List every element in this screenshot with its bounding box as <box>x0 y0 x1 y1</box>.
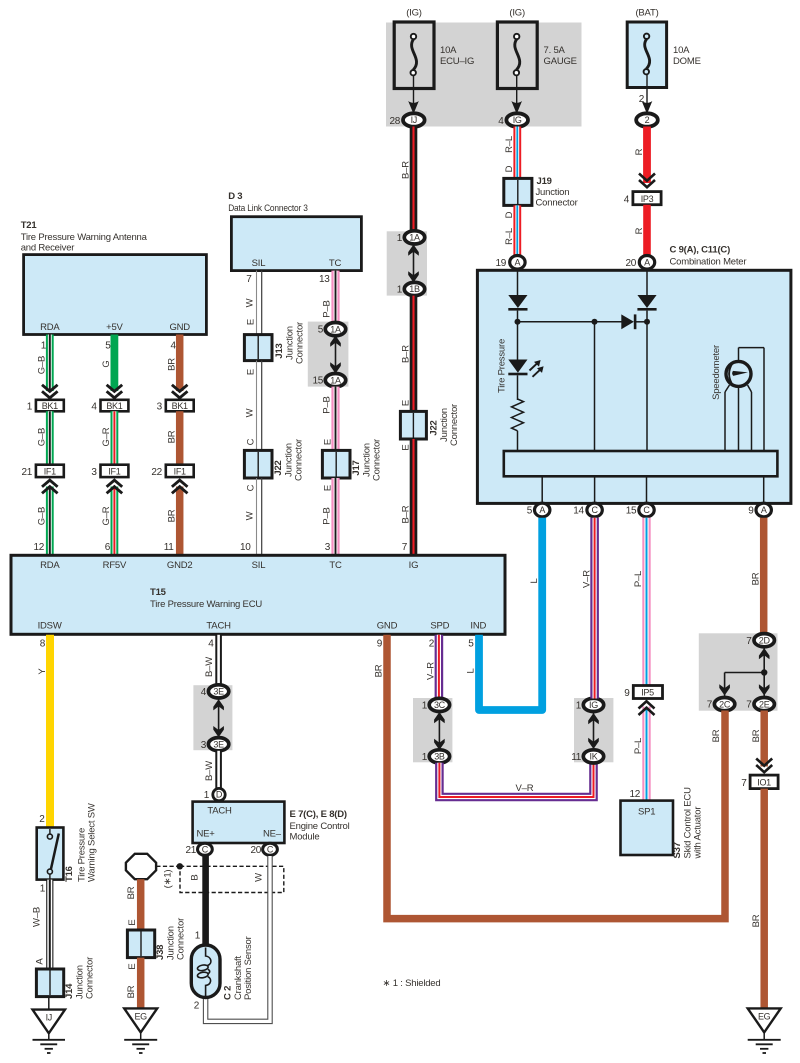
svg-text:7: 7 <box>707 700 713 711</box>
svg-text:Y: Y <box>37 668 48 675</box>
svg-text:B: B <box>190 874 201 880</box>
svg-text:3E: 3E <box>213 687 224 697</box>
svg-text:W: W <box>245 298 256 307</box>
svg-text:IP3: IP3 <box>641 194 654 204</box>
svg-text:IJ: IJ <box>411 115 417 125</box>
svg-text:R–L: R–L <box>504 136 515 153</box>
svg-text:IK: IK <box>590 752 598 762</box>
svg-text:C: C <box>202 845 209 855</box>
connector box BK1 pin 3 <box>157 400 194 413</box>
connector box BK1 pin 4 <box>91 400 128 413</box>
svg-text:IJ: IJ <box>46 1013 52 1023</box>
svg-text:with Actuator: with Actuator <box>693 807 704 860</box>
svg-text:Connector: Connector <box>294 439 305 481</box>
svg-text:21: 21 <box>21 467 32 478</box>
junction connector J14 <box>36 957 95 999</box>
junction connector J13 <box>244 322 305 364</box>
svg-text:7: 7 <box>741 778 747 789</box>
svg-text:J22: J22 <box>273 460 284 475</box>
svg-text:BK1: BK1 <box>42 401 58 411</box>
ground IJ <box>33 997 66 1053</box>
svg-text:C: C <box>246 438 257 445</box>
svg-text:B–R: B–R <box>400 505 411 523</box>
svg-text:Junction: Junction <box>536 187 570 198</box>
connector box IP3 pin 4 <box>624 192 661 206</box>
junction connector J17 <box>322 439 382 481</box>
svg-text:1: 1 <box>204 790 210 801</box>
T21 Tire Pressure Warning Antenna and Receiver box <box>24 255 207 335</box>
connector circle A pin 19 <box>495 255 525 269</box>
junction connector J22 (IG wire) <box>400 404 460 446</box>
svg-text:5: 5 <box>105 341 111 352</box>
wire G-B T21 RDA to BK1 <box>36 335 57 398</box>
svg-text:Connector: Connector <box>85 957 96 999</box>
svg-text:1: 1 <box>40 884 46 895</box>
connector box IF1 pin 3 <box>91 465 128 478</box>
svg-text:V–R: V–R <box>516 783 534 794</box>
svg-text:E: E <box>127 919 138 925</box>
svg-text:EG: EG <box>134 1011 147 1021</box>
wire W J22 to T15 pin 10 <box>240 478 262 555</box>
svg-text:V–R: V–R <box>582 570 593 588</box>
connector pair IG / IK <box>571 698 613 763</box>
svg-text:V–R: V–R <box>426 662 437 680</box>
svg-text:E 7(C), E 8(D): E 7(C), E 8(D) <box>290 809 347 820</box>
svg-text:BR: BR <box>126 985 137 998</box>
svg-text:∗ 1 : Shielded: ∗ 1 : Shielded <box>383 978 441 989</box>
svg-text:E: E <box>401 400 412 406</box>
svg-text:5: 5 <box>468 639 474 650</box>
junction connector J38 <box>127 918 186 960</box>
connector oval IJ pin 28 <box>389 113 424 127</box>
svg-text:E: E <box>401 444 412 450</box>
svg-text:IDSW: IDSW <box>38 621 62 632</box>
wire fuse1 to IJ oval <box>408 75 419 111</box>
wire BR CM pin 9 to 2D <box>750 518 763 636</box>
svg-text:G–B: G–B <box>36 356 47 374</box>
wire BR IO1 to EG ground <box>751 789 764 1009</box>
svg-text:12: 12 <box>33 542 44 553</box>
C2 Crankshaft Position Sensor <box>191 936 254 1011</box>
wire V-R T15 SPD to connector 3C <box>426 635 439 700</box>
wire BR BK1 to IF1 <box>166 411 179 465</box>
CM internal wire from pin 20 <box>646 271 648 296</box>
svg-text:5: 5 <box>527 506 533 517</box>
wire fuse2 to IG oval <box>511 75 522 111</box>
svg-text:2: 2 <box>39 814 45 825</box>
svg-text:BK1: BK1 <box>172 401 188 411</box>
svg-text:B–R: B–R <box>400 161 411 179</box>
T15 Tire Pressure Warning ECU box <box>11 555 505 634</box>
svg-text:19: 19 <box>495 258 506 269</box>
svg-text:RDA: RDA <box>40 322 60 333</box>
svg-text:IF1: IF1 <box>44 466 56 476</box>
connector group 2D / 2C / 2E <box>699 633 778 710</box>
connector circle C pin 20 <box>250 843 277 856</box>
svg-text:9: 9 <box>624 688 630 699</box>
svg-text:7: 7 <box>246 274 252 285</box>
CM bottom pin 9 A <box>748 503 771 517</box>
svg-text:SP1: SP1 <box>638 807 655 818</box>
T16 Tire Pressure Warning Select SW <box>37 803 98 882</box>
svg-text:3: 3 <box>325 542 331 553</box>
svg-text:DOME: DOME <box>673 56 701 67</box>
connector box BK1 pin 1 <box>27 400 64 413</box>
svg-text:10A: 10A <box>673 45 690 56</box>
CM bottom pin 14 C <box>573 503 602 517</box>
svg-text:R: R <box>634 227 645 234</box>
junction connector J19 <box>504 176 578 209</box>
connector oval IG pin 4 <box>498 113 528 127</box>
svg-text:NE+: NE+ <box>197 829 216 840</box>
svg-text:C 2: C 2 <box>223 986 234 1000</box>
svg-text:Connector: Connector <box>536 198 578 209</box>
svg-text:BK1: BK1 <box>106 401 122 411</box>
svg-text:BR: BR <box>711 729 722 742</box>
wire L CM pin5 to T15 IND <box>466 518 543 710</box>
svg-text:P–B: P–B <box>322 300 333 317</box>
svg-text:RF5V: RF5V <box>103 560 127 571</box>
connector pair 3E / 3E <box>193 685 232 751</box>
svg-text:G–R: G–R <box>101 506 112 525</box>
wire B-R J22 to T15 pin 7 <box>400 439 413 555</box>
svg-text:9: 9 <box>377 639 383 650</box>
svg-text:TACH: TACH <box>206 621 231 632</box>
wire G-R BK1 to IF1 <box>101 411 114 465</box>
svg-text:28: 28 <box>389 116 400 127</box>
svg-text:Position Sensor: Position Sensor <box>243 936 254 1000</box>
wire R fuse3 to IP3 <box>634 127 655 188</box>
svg-text:1: 1 <box>41 341 47 352</box>
ground EG (right) <box>748 1008 781 1053</box>
junction connector J22 (SIL wire) <box>244 439 304 481</box>
svg-text:G–B: G–B <box>36 507 47 525</box>
svg-text:4: 4 <box>624 194 630 205</box>
svg-text:5: 5 <box>318 325 324 336</box>
svg-text:P–L: P–L <box>633 571 644 587</box>
wire W pin20 to C2 (loop) <box>206 856 270 1021</box>
svg-text:BR: BR <box>374 664 385 677</box>
svg-text:2: 2 <box>194 1001 200 1012</box>
svg-text:4: 4 <box>208 639 214 650</box>
svg-text:GND: GND <box>169 322 190 333</box>
svg-text:7: 7 <box>746 636 752 647</box>
fuse 10A DOME <box>627 8 701 88</box>
svg-text:P–B: P–B <box>322 507 333 524</box>
svg-text:C: C <box>591 505 598 515</box>
svg-text:2C: 2C <box>719 699 731 709</box>
svg-text:W: W <box>254 873 265 882</box>
svg-text:NE–: NE– <box>263 829 282 840</box>
svg-text:J17: J17 <box>351 460 362 475</box>
T21 title <box>21 220 148 254</box>
svg-text:Tire Pressure Warning Antenna: Tire Pressure Warning Antenna <box>21 232 148 243</box>
CM bottom pin 5 A <box>527 503 550 517</box>
CM internal wire from pin 19 <box>517 271 519 296</box>
svg-text:A: A <box>515 258 521 268</box>
svg-text:2: 2 <box>429 639 435 650</box>
connector box IP5 pin 9 <box>624 686 662 700</box>
svg-text:W: W <box>245 511 256 520</box>
svg-text:GAUGE: GAUGE <box>544 56 577 67</box>
svg-text:Data Link Connector 3: Data Link Connector 3 <box>228 203 308 214</box>
svg-text:22: 22 <box>151 467 162 478</box>
svg-text:1A: 1A <box>330 375 341 385</box>
svg-text:(∗1): (∗1) <box>163 870 174 889</box>
svg-text:J14: J14 <box>64 983 75 999</box>
svg-text:(IG): (IG) <box>509 8 525 19</box>
svg-text:D 3: D 3 <box>228 191 242 202</box>
wire B pin21 to C2 <box>195 856 206 946</box>
svg-text:G–R: G–R <box>101 427 112 446</box>
combination meter title <box>670 245 747 268</box>
svg-text:4: 4 <box>498 116 504 127</box>
svg-text:E: E <box>246 369 257 375</box>
svg-text:A: A <box>644 258 650 268</box>
wire B-R fuse1 to connector 1A <box>400 127 413 234</box>
connector pair 3C / 3B <box>413 698 452 763</box>
shield dashed line and junction dot <box>156 863 183 869</box>
svg-text:IO1: IO1 <box>757 777 771 787</box>
fuse block shaded background <box>386 23 582 127</box>
svg-text:E: E <box>323 485 334 491</box>
svg-text:7: 7 <box>402 542 408 553</box>
svg-text:7. 5A: 7. 5A <box>544 45 566 56</box>
svg-text:2D: 2D <box>759 635 771 645</box>
svg-text:BR: BR <box>166 509 177 522</box>
svg-text:11: 11 <box>164 542 175 553</box>
svg-text:1B: 1B <box>409 284 420 294</box>
svg-text:C 9(A), C11(C): C 9(A), C11(C) <box>670 245 731 256</box>
svg-text:13: 13 <box>319 274 330 285</box>
svg-text:BR: BR <box>166 358 177 371</box>
svg-text:R–L: R–L <box>504 228 515 245</box>
svg-text:TC: TC <box>329 560 342 571</box>
svg-text:Connector: Connector <box>449 404 460 446</box>
svg-text:Warning Select SW: Warning Select SW <box>87 803 98 882</box>
svg-text:D: D <box>504 211 515 218</box>
svg-text:2: 2 <box>639 94 645 105</box>
svg-text:P–L: P–L <box>633 738 644 754</box>
connector circle A pin 20 <box>625 255 654 269</box>
D3 title <box>228 191 308 214</box>
ground EG (left) <box>124 1008 157 1053</box>
svg-text:1: 1 <box>397 285 403 296</box>
svg-text:7: 7 <box>746 700 752 711</box>
wire P-L CM pin 15 to IP5 <box>633 518 646 686</box>
svg-text:21: 21 <box>185 845 196 856</box>
svg-text:E: E <box>323 439 334 445</box>
wire P-L IP5 to SP1 pin 12 <box>629 701 654 801</box>
CM pin stubs to bottom edge <box>542 476 764 503</box>
connector pair 1A / 1A (TC wire) <box>308 322 349 387</box>
svg-text:RDA: RDA <box>40 560 60 571</box>
svg-text:1: 1 <box>27 402 33 413</box>
wire Y T15 IDSW to T16 <box>37 635 50 828</box>
svg-text:Speedometer: Speedometer <box>711 345 722 400</box>
wire BR T21 GND to BK1 <box>166 335 187 398</box>
diode D2 (pin 20) <box>637 295 656 311</box>
svg-text:BR: BR <box>751 914 762 927</box>
svg-text:IF1: IF1 <box>174 466 186 476</box>
S37 Skid Control ECU with Actuator <box>621 787 704 860</box>
svg-text:3B: 3B <box>434 752 445 762</box>
svg-text:C: C <box>643 505 650 515</box>
svg-text:C: C <box>246 484 257 491</box>
svg-text:6: 6 <box>105 542 111 553</box>
tire pressure warning LED <box>497 339 544 393</box>
svg-text:BR: BR <box>126 886 137 899</box>
wire P-B J17 to T15 pin 3 <box>322 478 336 555</box>
CM internal bus bar <box>504 451 778 476</box>
svg-text:15: 15 <box>312 376 323 387</box>
svg-text:1: 1 <box>397 233 403 244</box>
svg-text:A: A <box>761 505 767 515</box>
combination meter box C9(A) C11(C) <box>477 270 791 503</box>
wire G-R IF1 to T15 pin 6 <box>101 480 122 555</box>
E7(C) E8(D) Engine Control Module box <box>193 802 350 843</box>
svg-text:IP5: IP5 <box>641 688 654 698</box>
CM junction wiring row <box>515 311 651 451</box>
svg-text:11: 11 <box>571 752 582 763</box>
svg-text:B–W: B–W <box>204 657 215 677</box>
svg-text:3: 3 <box>157 402 163 413</box>
wire W J13 to J22 <box>245 361 262 452</box>
wire BR J38 to EG ground <box>126 958 141 1009</box>
svg-text:BR: BR <box>751 729 762 742</box>
wire P-B D3 TC to connector 1A <box>319 271 336 324</box>
wire BR octagon to J38 <box>126 879 141 931</box>
wire G-B BK1 to IF1 <box>36 411 49 465</box>
resistor in CM <box>512 375 524 451</box>
svg-text:TACH: TACH <box>207 806 232 817</box>
svg-text:IF1: IF1 <box>108 466 120 476</box>
wire G T21 +5V to BK1 <box>101 335 122 398</box>
svg-text:Tire Pressure: Tire Pressure <box>497 339 508 393</box>
svg-text:A: A <box>539 505 545 515</box>
svg-text:20: 20 <box>250 845 261 856</box>
wire P-B connector to J17 <box>322 387 336 452</box>
svg-text:TC: TC <box>329 258 342 269</box>
svg-text:3C: 3C <box>434 700 446 710</box>
diode D1 (pin 19) <box>508 295 527 311</box>
svg-text:Connector: Connector <box>372 439 383 481</box>
svg-text:E: E <box>127 963 138 969</box>
svg-text:8: 8 <box>40 639 46 650</box>
svg-text:Combination Meter: Combination Meter <box>670 257 747 268</box>
svg-text:R: R <box>634 148 645 155</box>
svg-text:IND: IND <box>470 621 486 632</box>
svg-text:SPD: SPD <box>430 621 449 632</box>
svg-text:L: L <box>529 578 540 583</box>
wire B-W 3E to D oval <box>204 751 219 788</box>
fuse 10A ECU-IG <box>394 8 474 89</box>
diode D3 (horizontal) <box>621 314 636 329</box>
svg-text:W–B: W–B <box>32 907 43 927</box>
svg-text:3: 3 <box>201 740 207 751</box>
svg-text:Engine Control: Engine Control <box>290 821 350 832</box>
svg-text:D: D <box>216 790 223 800</box>
wire BR T15 GND to 2C (long route) <box>374 635 725 919</box>
svg-text:J22: J22 <box>429 420 440 435</box>
svg-text:Connector: Connector <box>295 322 306 364</box>
connector oval 2 <box>636 113 658 126</box>
connector box IO1 pin 7 <box>741 775 778 789</box>
wire R-L J19 to CM pin 19 <box>504 205 517 256</box>
svg-text:T21: T21 <box>21 220 38 231</box>
svg-text:(BAT): (BAT) <box>635 8 658 19</box>
svg-text:4: 4 <box>91 402 97 413</box>
wire R IP3 to CM pin 20 <box>634 205 647 256</box>
wire BR IF1 to T15 pin 11 <box>164 480 188 555</box>
D3 Data Link Connector 3 box <box>231 217 361 271</box>
svg-text:1: 1 <box>422 752 428 763</box>
svg-text:D: D <box>504 165 515 172</box>
svg-text:S37: S37 <box>672 842 683 858</box>
svg-text:2: 2 <box>645 115 650 125</box>
wire B-R connector 1B to J22 <box>400 296 413 412</box>
svg-text:1: 1 <box>576 701 582 712</box>
svg-text:B–R: B–R <box>400 345 411 363</box>
svg-text:+5V: +5V <box>106 322 123 333</box>
svg-text:(IG): (IG) <box>406 8 422 19</box>
connector box IF1 pin 21 <box>21 465 63 478</box>
svg-text:L: L <box>466 668 477 673</box>
svg-text:Tire Pressure Warning ECU: Tire Pressure Warning ECU <box>150 599 262 610</box>
wire fuse3 to oval 2 <box>639 74 653 111</box>
speedometer symbol <box>711 345 764 451</box>
svg-text:IG: IG <box>513 115 522 125</box>
svg-text:T16: T16 <box>64 866 75 882</box>
svg-text:1: 1 <box>195 931 201 942</box>
svg-text:GND2: GND2 <box>167 560 193 571</box>
svg-text:12: 12 <box>629 789 640 800</box>
svg-text:IG: IG <box>589 700 598 710</box>
shield dashed box (*1) <box>163 866 284 892</box>
connector box IF1 pin 22 <box>151 465 193 478</box>
svg-text:4: 4 <box>171 341 177 352</box>
wire B-W T15 TACH to connector 3E <box>204 635 219 687</box>
svg-text:15: 15 <box>626 506 637 517</box>
svg-text:1A: 1A <box>409 233 420 243</box>
svg-text:and Receiver: and Receiver <box>21 243 75 254</box>
wire V-R IG to CM pin 14 <box>582 518 595 699</box>
svg-text:9: 9 <box>748 506 754 517</box>
svg-text:J38: J38 <box>155 945 166 960</box>
svg-text:Module: Module <box>290 832 320 843</box>
svg-text:2E: 2E <box>759 699 770 709</box>
svg-text:BR: BR <box>166 430 177 443</box>
svg-text:T15: T15 <box>150 587 167 598</box>
svg-text:14: 14 <box>573 506 584 517</box>
svg-text:P–B: P–B <box>322 396 333 413</box>
svg-text:SIL: SIL <box>252 258 266 269</box>
svg-text:G: G <box>101 360 112 367</box>
connector circle D pin 1 <box>204 788 225 801</box>
svg-text:W: W <box>245 408 256 417</box>
connector pair 1A / 1B <box>387 231 427 296</box>
svg-text:J19: J19 <box>537 176 552 187</box>
svg-text:10A: 10A <box>440 45 457 56</box>
wire W D3 SIL to J13 <box>245 271 262 336</box>
svg-text:EG: EG <box>758 1011 771 1021</box>
svg-text:B–W: B–W <box>204 761 215 781</box>
svg-text:GND: GND <box>377 621 398 632</box>
svg-text:A: A <box>35 958 46 965</box>
svg-text:10: 10 <box>240 542 251 553</box>
svg-text:G–B: G–B <box>36 428 47 446</box>
wire BR 2E to IO1 <box>751 711 772 773</box>
